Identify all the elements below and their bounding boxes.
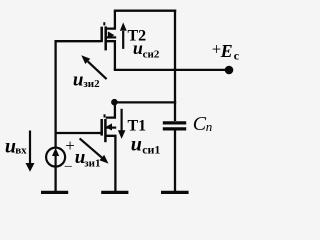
- gate bar: [100, 27, 103, 43]
- svg-text:T1: T1: [128, 118, 147, 135]
- voltage arrow u_si1 (down): [118, 109, 126, 139]
- svg-text:си1: си1: [142, 142, 160, 156]
- wire: +Ec supply wire from T2 source to output terminal: [114, 69, 226, 71]
- circle: [46, 148, 65, 167]
- svg-text:E: E: [220, 41, 233, 61]
- drain lead from junction dot: [106, 102, 115, 117]
- ground: under T1 source: [101, 191, 128, 194]
- svg-text:зи1: зи1: [84, 157, 100, 169]
- transistor T1: [102, 102, 117, 191]
- ground: under capacitor: [161, 191, 189, 194]
- bottom plate: [163, 127, 186, 130]
- substrate dot above gate: [104, 114, 106, 117]
- transistor T2: [102, 11, 117, 70]
- node: output terminal dot +Ec: [225, 66, 234, 75]
- svg-text:зи2: зи2: [83, 78, 100, 90]
- svg-text:с: с: [234, 48, 240, 62]
- ground: under voltage source: [41, 191, 68, 194]
- voltage source E (input): [46, 136, 75, 174]
- internal EMF arrow up: [54, 155, 56, 167]
- svg-text:u: u: [73, 69, 84, 90]
- source lead: [105, 136, 115, 191]
- drain lead: [106, 11, 115, 29]
- svg-text:u: u: [133, 38, 143, 58]
- svg-text:+: +: [65, 136, 75, 155]
- svg-text:–: –: [64, 159, 73, 174]
- bottom lead: [174, 131, 176, 192]
- substrate lead with arrow: [105, 126, 116, 128]
- wire: T2 gate lead and left rail down to source: [56, 41, 101, 147]
- svg-text:C: C: [193, 113, 207, 135]
- voltage arrow u_zi2 (up-left diagonal): [81, 55, 106, 79]
- wire: right vertical rail (T2 drain to capacitor): [174, 10, 176, 121]
- wire: output node wire from junction to right rail: [115, 101, 176, 103]
- substrate lead with arrow: [106, 36, 117, 38]
- voltage arrow u_vx (input, down): [26, 131, 35, 172]
- substrate dot above gate: [103, 22, 105, 25]
- svg-text:n: n: [206, 119, 213, 134]
- voltage arrow u_si2 (up): [120, 22, 127, 49]
- wire: T1 gate lead: [56, 132, 101, 134]
- top plate: [163, 121, 186, 124]
- gate bar: [100, 119, 103, 136]
- svg-text:си2: си2: [143, 49, 160, 61]
- wire: source bottom lead: [54, 167, 56, 191]
- channel bar: [104, 119, 107, 142]
- svg-text:u: u: [131, 133, 142, 155]
- node: junction dot between T2 source and T1 drain: [111, 99, 118, 106]
- wire: top rail from T2 drain to right rail: [114, 10, 176, 12]
- source lead: [106, 41, 115, 70]
- voltage arrow u_zi1 (down-right diagonal): [80, 138, 109, 163]
- capacitor Cn: [163, 123, 186, 191]
- svg-text:вх: вх: [15, 145, 27, 157]
- channel bar: [104, 26, 107, 50]
